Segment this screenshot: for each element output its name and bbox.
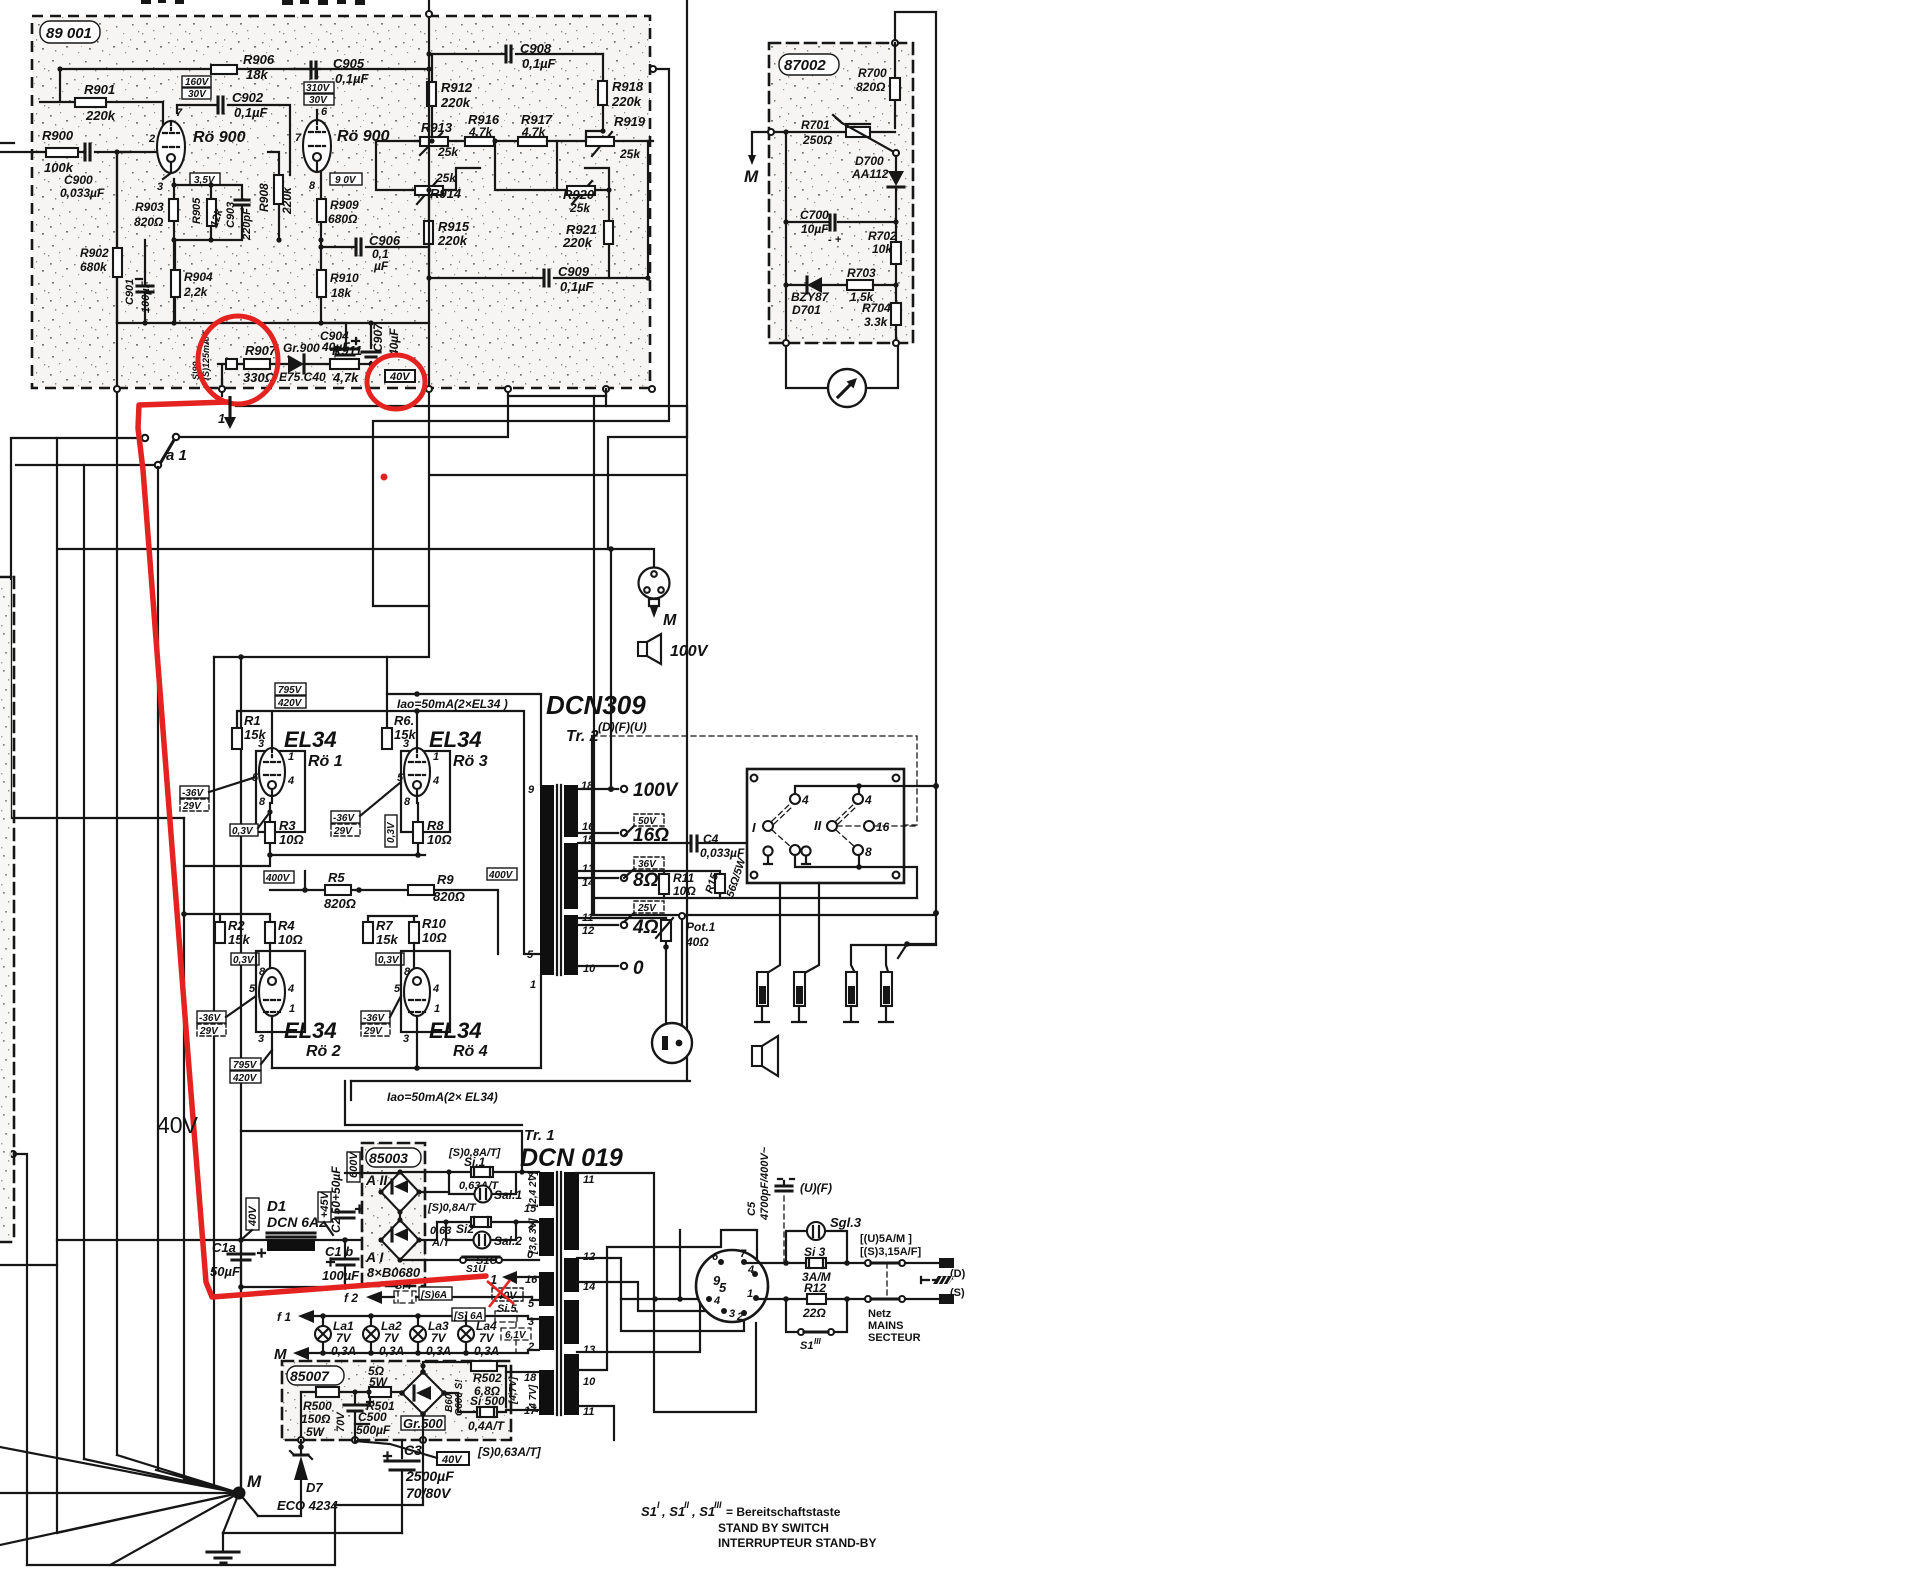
fuse S900 (218, 364, 244, 389)
svg-text:3: 3 (258, 738, 264, 750)
svg-text:R7: R7 (376, 918, 393, 933)
svg-text:4: 4 (432, 775, 439, 787)
capacitor C500 (355, 1392, 369, 1424)
bottom rail (27, 1440, 423, 1565)
resistor R903 (173, 179, 175, 323)
jack 1 (757, 972, 768, 1006)
svg-text:R12: R12 (804, 1281, 826, 1295)
resistor R700 (894, 43, 896, 128)
speaker 100V icon (638, 642, 647, 656)
svg-text:Rö 1: Rö 1 (308, 753, 343, 770)
svg-text:11: 11 (583, 1406, 594, 1418)
svg-text:C700: C700 (800, 208, 829, 222)
svg-text:R5: R5 (328, 870, 345, 885)
switch panel box (747, 769, 904, 883)
svg-text:16Ω: 16Ω (633, 825, 669, 846)
rotary I (763, 821, 773, 831)
svg-text:Si 3: Si 3 (804, 1245, 826, 1259)
svg-text:220k: 220k (611, 94, 642, 109)
fuse Si5 dashed (495, 1311, 517, 1322)
svg-text:R1: R1 (244, 713, 261, 728)
grid bus lower (184, 914, 417, 922)
svg-text:820Ω: 820Ω (134, 215, 164, 229)
svg-text:R918: R918 (612, 79, 644, 94)
tap 16 ohm (578, 833, 690, 843)
svg-text:40Ω: 40Ω (685, 935, 709, 949)
plug D (939, 1258, 954, 1268)
tube EL34 Rö1 (256, 751, 305, 832)
wire f2 line (382, 1296, 532, 1298)
fuse Si4 (394, 1291, 416, 1303)
svg-text:100µF: 100µF (322, 1268, 360, 1283)
wire heater bus (351, 406, 690, 1081)
svg-text:R8: R8 (427, 818, 444, 833)
pot R914 (412, 168, 480, 204)
left dashed neighbor box (0, 577, 14, 1242)
svg-text:D7: D7 (306, 1480, 323, 1495)
svg-text:29V: 29V (199, 1026, 219, 1037)
svg-text:10Ω: 10Ω (427, 832, 452, 847)
svg-text:Iao=50mA(2×EL34 ): Iao=50mA(2×EL34 ) (397, 697, 508, 711)
label S6A (419, 1287, 452, 1300)
resistor R502 (471, 1361, 497, 1371)
svg-text:25V: 25V (637, 903, 657, 914)
fuse Si500 (444, 1393, 477, 1412)
red circle around R907 (198, 316, 278, 404)
svg-text:25k: 25k (437, 145, 459, 159)
svg-text:16: 16 (525, 1274, 538, 1286)
tap 8 ohm (578, 871, 664, 878)
svg-text:Rö 4: Rö 4 (453, 1043, 488, 1060)
svg-text:II: II (814, 818, 822, 833)
svg-text:Tr. 1: Tr. 1 (524, 1127, 555, 1144)
svg-text:40V: 40V (389, 371, 411, 383)
svg-text:29V: 29V (182, 801, 202, 812)
diode D700 (895, 156, 897, 222)
hatch mark (921, 1277, 937, 1283)
svg-text:85007: 85007 (290, 1368, 330, 1384)
svg-text:4Ω: 4Ω (632, 917, 659, 938)
svg-text:400V: 400V (265, 873, 291, 884)
svg-text:18k: 18k (246, 67, 268, 82)
wire y421 net (373, 69, 669, 606)
node M arrow left (752, 132, 768, 156)
svg-text:0,1µF: 0,1µF (234, 105, 269, 120)
svg-text:I: I (752, 820, 756, 835)
svg-text:EL34: EL34 (429, 1018, 482, 1043)
svg-text:40V: 40V (441, 1454, 463, 1466)
svg-text:500µF: 500µF (356, 1423, 391, 1437)
svg-text:[S)0,63A/T]: [S)0,63A/T] (477, 1445, 542, 1459)
svg-text:7: 7 (295, 132, 302, 144)
svg-text:R701: R701 (801, 118, 830, 132)
wire mains upper (744, 1262, 939, 1263)
svg-text:4,7k: 4,7k (332, 370, 359, 385)
dashed box DFU (592, 736, 917, 900)
label -36V/29V Rö4 (361, 1011, 390, 1023)
lamp Sgl.3 (786, 1231, 847, 1263)
svg-text:Gr.900: Gr.900 (283, 341, 320, 355)
svg-text:EL34: EL34 (284, 1018, 337, 1043)
svg-text:0,033µF: 0,033µF (60, 186, 105, 200)
resistor R8 (417, 803, 419, 855)
label +45V pennant (318, 1192, 331, 1222)
svg-text:a 1: a 1 (166, 447, 187, 464)
svg-text:[4 7V]: [4 7V] (528, 1384, 539, 1413)
wire y437 with switch a1 (11, 389, 508, 818)
svg-text:C903: C903 (225, 202, 237, 228)
label 40V dashed crossed (492, 1288, 523, 1301)
resistor R5 (325, 885, 351, 895)
svg-text:R913: R913 (421, 120, 453, 135)
svg-text:C1 b: C1 b (325, 1244, 353, 1259)
svg-text:C905: C905 (333, 56, 365, 71)
svg-text:0,3V: 0,3V (233, 955, 255, 966)
wire panel to jacks (764, 883, 936, 975)
triode Rö900 b (303, 120, 331, 172)
svg-text:50µF: 50µF (210, 1264, 241, 1279)
svg-text:795V: 795V (278, 685, 303, 696)
svg-text:1: 1 (288, 751, 294, 763)
capacitor C903 (211, 185, 242, 240)
switch S1 III loop (786, 1299, 847, 1332)
svg-text:C1a: C1a (212, 1240, 236, 1255)
svg-text:R500: R500 (303, 1399, 332, 1413)
tap 100V (578, 788, 618, 790)
svg-text:220k: 220k (437, 233, 468, 248)
wire bottom link (241, 1286, 345, 1288)
stubs to Tr1 (506, 1372, 539, 1410)
svg-text:INTERRUPTEUR STAND-BY: INTERRUPTEUR STAND-BY (718, 1536, 876, 1550)
svg-text:29V: 29V (333, 826, 353, 837)
lamp La1 (322, 1316, 324, 1353)
lamp La3 (417, 1316, 419, 1353)
label 40V boxed (437, 1452, 469, 1465)
svg-text:0,3A: 0,3A (331, 1344, 356, 1358)
label 0,3V Rö4 (376, 953, 404, 965)
svg-text:8: 8 (404, 966, 411, 978)
svg-text:70/80V: 70/80V (406, 1485, 452, 1501)
svg-text:0: 0 (633, 958, 644, 979)
svg-text:EL34: EL34 (284, 727, 337, 752)
voltage selector (696, 1250, 768, 1322)
svg-text:1: 1 (218, 411, 225, 426)
svg-text:0,1µF: 0,1µF (335, 71, 370, 86)
capacitor C906 (321, 246, 429, 248)
label 400V boxes (264, 871, 294, 883)
svg-text:R900: R900 (42, 128, 74, 143)
svg-text:220k: 220k (562, 235, 593, 250)
pot Pot.1 (665, 918, 667, 1024)
fuse Si.1 (471, 1167, 493, 1177)
svg-text:680k: 680k (80, 260, 108, 274)
svg-text:5: 5 (249, 983, 256, 995)
svg-text:R907: R907 (245, 343, 277, 358)
svg-text:25k: 25k (435, 171, 457, 185)
svg-text:0,3V: 0,3V (232, 826, 254, 837)
resistor R910 (320, 240, 322, 323)
svg-text:[(S)3,15A/F]: [(S)3,15A/F] (860, 1246, 921, 1258)
svg-text:50V: 50V (638, 816, 657, 827)
fuse Si2 (437, 1221, 539, 1223)
top cut text fragments (141, 0, 151, 4)
svg-text:µF: µF (373, 259, 389, 273)
svg-text:4: 4 (287, 775, 294, 787)
capacitor C1b (344, 1240, 346, 1287)
resistor R905 (174, 185, 211, 240)
svg-text:18: 18 (524, 1372, 537, 1384)
transformer Tr.1 primary bars (539, 1172, 554, 1206)
svg-text:R700: R700 (858, 66, 887, 80)
svg-text:0,3A: 0,3A (426, 1344, 451, 1358)
svg-text:[(U)5A/M ]: [(U)5A/M ] (860, 1233, 912, 1245)
svg-text:820Ω: 820Ω (856, 80, 886, 94)
svg-text:R901: R901 (84, 82, 115, 97)
transformer Tr.1 secondary bars (564, 1172, 579, 1250)
svg-text:87002: 87002 (784, 57, 826, 74)
switch S1 II (400, 1259, 497, 1261)
svg-text:0,63: 0,63 (430, 1225, 451, 1237)
node 310V/30V labels (304, 82, 334, 93)
svg-text:420V: 420V (277, 698, 303, 709)
svg-text:R919: R919 (614, 114, 646, 129)
svg-text:4: 4 (287, 983, 294, 995)
resistor R906 (211, 65, 237, 74)
svg-text:680Ω: 680Ω (328, 212, 358, 226)
svg-text:R905: R905 (191, 197, 203, 224)
svg-text:[3,6 3V]: [3,6 3V] (528, 1218, 539, 1255)
svg-text:40V: 40V (247, 1205, 259, 1227)
wire mid feeders (386, 657, 388, 694)
svg-text:C902: C902 (232, 90, 264, 105)
svg-text:3.3k: 3.3k (864, 315, 889, 329)
svg-text:MAINS: MAINS (868, 1320, 903, 1332)
svg-text:2: 2 (148, 133, 155, 145)
svg-text:5W: 5W (306, 1425, 326, 1439)
svg-text:4: 4 (432, 983, 439, 995)
svg-text:11: 11 (583, 1174, 594, 1186)
wire under box (298, 1437, 304, 1443)
svg-text:S1: S1 (800, 1340, 813, 1352)
capacitor C5 (783, 1196, 785, 1263)
svg-text:E75 C40: E75 C40 (279, 370, 326, 384)
svg-text:R702: R702 (868, 229, 897, 243)
node 160V/30V labels (182, 76, 211, 87)
svg-text:310V: 310V (306, 83, 331, 94)
svg-text:-36V: -36V (333, 813, 355, 824)
resistor R904 (174, 240, 176, 323)
label 40V pennant (246, 1198, 259, 1230)
svg-text:A II: A II (365, 1172, 388, 1188)
svg-text:10: 10 (583, 963, 596, 975)
cathode rail (184, 855, 425, 866)
svg-text:250Ω: 250Ω (802, 133, 833, 147)
svg-text:0,3V: 0,3V (386, 821, 397, 843)
svg-text:D700: D700 (855, 154, 884, 168)
svg-text:0,3A: 0,3A (379, 1344, 404, 1358)
svg-text:5W: 5W (369, 1375, 389, 1389)
svg-text:5: 5 (719, 1280, 727, 1295)
meter (786, 346, 898, 388)
svg-text:0,1µF: 0,1µF (560, 279, 595, 294)
svg-text:Si 500: Si 500 (470, 1394, 505, 1408)
svg-text:[4,7V]: [4,7V] (508, 1376, 519, 1405)
resistor R909 (320, 172, 322, 240)
svg-text:18k: 18k (331, 286, 352, 300)
svg-text:2,2k: 2,2k (183, 285, 209, 299)
node 40V boxed label (385, 370, 415, 382)
wire x429 long (214, 0, 687, 657)
connector phono (652, 1023, 692, 1063)
resistor R6 (382, 728, 392, 749)
svg-text:C906: C906 (369, 233, 401, 248)
resistor R917 (518, 137, 547, 146)
svg-text:1: 1 (433, 751, 439, 763)
wire top feed to 87002 (895, 12, 936, 944)
speaker icon bottom (752, 1046, 762, 1066)
svg-text:30V: 30V (188, 89, 207, 100)
wires bridges (345, 1172, 463, 1260)
svg-text:10: 10 (583, 1376, 596, 1388)
C3 bottom link (223, 1532, 402, 1534)
resistor R500 (301, 1391, 369, 1393)
red circle around 40V (367, 355, 425, 409)
resistor R902 (116, 152, 118, 323)
svg-text:R904: R904 (184, 270, 213, 284)
svg-text:4: 4 (864, 793, 872, 807)
resistor R9 (408, 885, 434, 895)
svg-text:5: 5 (527, 949, 534, 961)
svg-text:25k: 25k (569, 201, 591, 215)
svg-text:SECTEUR: SECTEUR (868, 1332, 921, 1344)
svg-text:3: 3 (403, 1033, 409, 1045)
capacitor C3 (401, 1440, 403, 1533)
svg-text:8: 8 (865, 845, 872, 859)
resistor R2 (215, 922, 225, 943)
svg-text:36V: 36V (638, 859, 657, 870)
label 795V/420V top (275, 683, 306, 695)
svg-text:0,4A/T: 0,4A/T (468, 1419, 506, 1433)
svg-text:D1: D1 (267, 1198, 286, 1215)
svg-text:100µF: 100µF (140, 281, 152, 313)
resistor R1 (232, 728, 242, 749)
wire mains lower (756, 1298, 939, 1299)
svg-text:= Bereitschaftstaste: = Bereitschaftstaste (726, 1505, 841, 1519)
svg-text:R910: R910 (330, 271, 359, 285)
capacitor C905 (290, 69, 429, 120)
tap 0 (578, 965, 618, 967)
capacitor C900 (85, 144, 90, 160)
arrow S1 I with red target (517, 1276, 539, 1278)
wire left column links (0, 1264, 57, 1266)
tube EL34 Rö4 (401, 951, 450, 1032)
svg-text:4700pF/400V~: 4700pF/400V~ (759, 1146, 771, 1221)
svg-text:M: M (663, 612, 677, 629)
svg-text:C900: C900 (64, 173, 93, 187)
svg-text:C908: C908 (520, 41, 552, 56)
svg-text:6: 6 (712, 1251, 719, 1263)
svg-text:R2: R2 (228, 918, 245, 933)
svg-text:40V: 40V (157, 1112, 199, 1138)
rail under R11/R15 (592, 736, 936, 915)
tube EL34 Rö2 (256, 951, 305, 1032)
svg-text:7V: 7V (431, 1331, 447, 1345)
selector wiring nest (576, 1173, 756, 1412)
svg-text:7: 7 (740, 1248, 747, 1260)
svg-text:16: 16 (876, 820, 890, 834)
black arrow target of red line top (228, 396, 231, 418)
ground (222, 1533, 224, 1552)
svg-text:R3: R3 (279, 818, 296, 833)
resistor R911 (330, 359, 359, 369)
wire long vertical x687 (236, 0, 687, 549)
svg-text:1: 1 (747, 1288, 753, 1300)
label 6,1V (501, 1328, 531, 1340)
svg-text:420V: 420V (232, 1073, 258, 1084)
module box 87 002 (769, 43, 913, 343)
node 3,5V box (190, 173, 220, 185)
M star node (233, 1487, 246, 1500)
wire left rail (785, 132, 787, 343)
svg-text:M: M (247, 1472, 262, 1491)
svg-text:220k: 220k (280, 186, 294, 215)
transformer Tr.2 primary bar (540, 785, 554, 975)
svg-text:3: 3 (258, 1033, 264, 1045)
capacitor C909 (429, 141, 648, 278)
svg-text:Netz: Netz (868, 1308, 892, 1320)
node 90V box (330, 173, 362, 185)
wire feed y1131 (241, 1081, 522, 1172)
svg-text:C909: C909 (558, 264, 590, 279)
red trace 40V net (138, 402, 486, 1297)
svg-text:C3: C3 (404, 1442, 422, 1458)
svg-text:[2,4 2V]: [2,4 2V] (528, 1171, 539, 1208)
wire f1 line (314, 1315, 528, 1317)
svg-text:III: III (814, 1337, 821, 1346)
svg-text:ECO 4234: ECO 4234 (277, 1498, 338, 1513)
label 600V box (347, 1152, 360, 1182)
svg-text:0,3A: 0,3A (474, 1344, 499, 1358)
svg-text:III: III (714, 1500, 722, 1510)
switch a1 (142, 435, 148, 441)
svg-text:Sgl.3: Sgl.3 (830, 1215, 862, 1230)
capacitor C902 (177, 105, 290, 175)
svg-text:R915: R915 (438, 219, 470, 234)
svg-text:- +: - + (828, 234, 842, 246)
svg-text:R914: R914 (430, 186, 462, 201)
bottom bus of left stage (117, 152, 429, 323)
resistor R908 (268, 152, 279, 240)
connector DIN M (639, 568, 670, 599)
svg-text:(U)(F): (U)(F) (800, 1181, 832, 1195)
tube EL34 Rö3 (401, 751, 450, 832)
svg-text:A I: A I (365, 1249, 384, 1265)
C904 (321, 323, 346, 364)
svg-text:4: 4 (747, 1264, 754, 1276)
resistor R704 (895, 285, 897, 343)
module box 85003 (362, 1143, 425, 1286)
svg-text:70V: 70V (335, 1411, 347, 1432)
capacitor C4 (691, 836, 697, 851)
svg-text:795V: 795V (233, 1060, 258, 1071)
resistor R15 (664, 871, 720, 898)
svg-text:0,1µF: 0,1µF (522, 56, 557, 71)
resistor R915 (428, 190, 430, 278)
svg-text:Iao=50mA(2× EL34): Iao=50mA(2× EL34) (387, 1090, 498, 1104)
svg-text:2: 2 (736, 1311, 743, 1323)
svg-text:7V: 7V (479, 1331, 495, 1345)
svg-text:R10: R10 (422, 916, 447, 931)
